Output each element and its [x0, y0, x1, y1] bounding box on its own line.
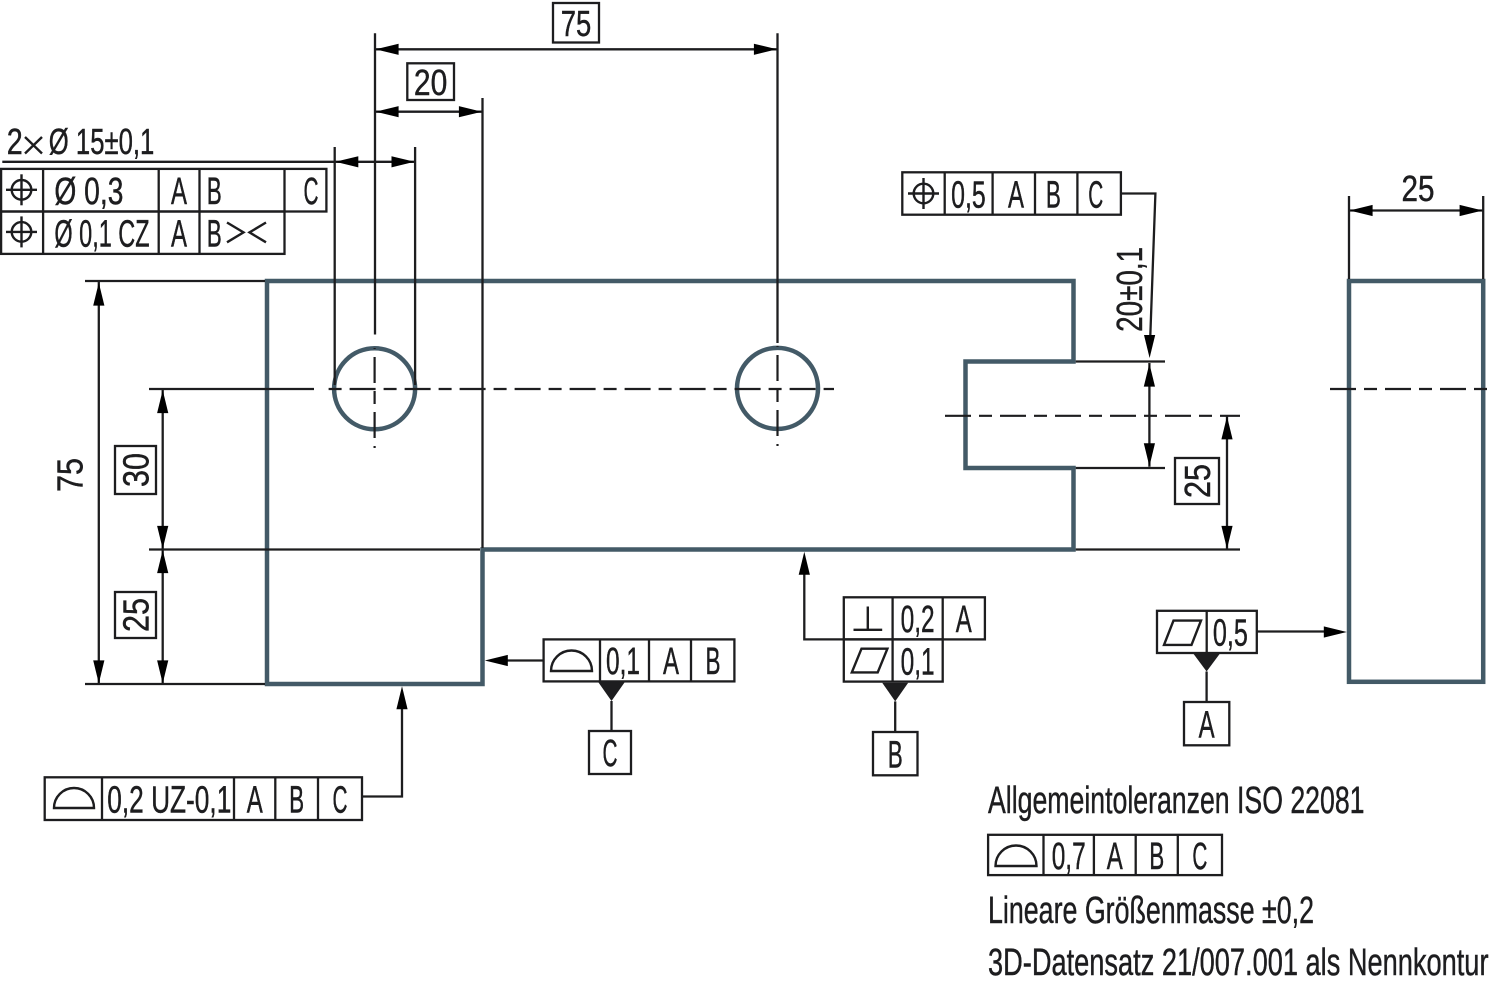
svg-text:C: C: [333, 780, 348, 822]
svg-text:3D-Datensatz 21/007.001 als Ne: 3D-Datensatz 21/007.001 als Nennkontur: [988, 942, 1489, 984]
extension line bottom-left corner: [85, 683, 265, 685]
side view rectangle: [1349, 281, 1483, 682]
svg-text:30: 30: [116, 453, 157, 487]
svg-text:B: B: [1149, 836, 1164, 878]
extension line bottom edge right: [1076, 548, 1240, 550]
datum B box: [873, 732, 918, 775]
FCF top-left row2 between symbol: [227, 223, 266, 243]
FCF top-right position symbol: [908, 178, 939, 209]
dimension 2x dia 15: leader line and arrows: [2, 161, 415, 163]
svg-text:A: A: [171, 171, 187, 213]
FCF top-right leader with arrow to notch extension: [1121, 194, 1156, 351]
svg-text:0,5: 0,5: [951, 174, 986, 216]
svg-text:A: A: [956, 599, 972, 641]
extension line notch bottom: [1076, 467, 1165, 469]
svg-text:25: 25: [116, 598, 157, 632]
FCF top-right frame: [902, 172, 1121, 214]
svg-text:B: B: [1046, 174, 1061, 216]
svg-text:0,7: 0,7: [1052, 836, 1086, 878]
hole 2: [737, 348, 818, 429]
datum C box: [589, 731, 631, 774]
dimension 20 top: frame box: [407, 63, 454, 100]
notch centerline: [945, 415, 1240, 417]
dimension 20 top: line and arrows: [375, 111, 483, 113]
FCF profile 0,1 leader arrow to step edge: [506, 659, 544, 661]
extension line step bottom left: [149, 548, 480, 550]
svg-text:0,5: 0,5: [1213, 613, 1248, 655]
extension line side view left: [1348, 196, 1350, 279]
dimension 20+-0,1 notch: line and arrows: [1148, 363, 1150, 467]
svg-text:Ø 0,3: Ø 0,3: [54, 171, 123, 213]
extension line hole1 center top: [374, 33, 376, 334]
perpendicularity symbol: [854, 607, 883, 630]
dimension 25 right: frame box: [1175, 458, 1219, 504]
svg-text:25: 25: [1177, 464, 1218, 498]
main horizontal centerline through holes: solid extension part: [149, 388, 314, 390]
svg-text:A: A: [247, 780, 263, 822]
FCF bottom-left profile 0,2 UZ-0,1 A B C frame: [45, 777, 362, 820]
svg-text:0,2 UZ-0,1: 0,2 UZ-0,1: [107, 780, 231, 822]
svg-text:B: B: [289, 780, 304, 822]
svg-text:A: A: [1008, 174, 1024, 216]
svg-text:25: 25: [1402, 168, 1435, 209]
dimension 25 left: frame box: [115, 592, 156, 638]
svg-text:A: A: [171, 213, 187, 255]
svg-text:20±0,1: 20±0,1: [1109, 247, 1150, 332]
FCF flatness 0,1 frame: [844, 639, 943, 681]
dimension 30 left: line and arrows: [162, 390, 164, 685]
dimension 25 side view: line and arrows: [1349, 209, 1483, 211]
side view centerline: [1330, 388, 1492, 390]
svg-text:20: 20: [414, 62, 447, 103]
extension line hole2 center top: [776, 33, 778, 343]
FCF top-left row1 position symbol: [6, 174, 37, 205]
part outline front view: [267, 281, 1074, 684]
svg-text:A: A: [1199, 704, 1215, 746]
surface profile symbol bottom-left: [54, 788, 94, 808]
hole 1: [334, 348, 415, 429]
hole 1 vertical centerline: [374, 348, 376, 448]
dimension 75 top: frame box: [553, 3, 599, 43]
flatness symbol 0,5: [1164, 621, 1201, 645]
svg-text:Lineare Größenmasse ±0,2: Lineare Größenmasse ±0,2: [988, 890, 1314, 932]
svg-text:0,2: 0,2: [901, 599, 935, 641]
svg-text:Ø 15±0,1: Ø 15±0,1: [49, 121, 155, 162]
svg-text:C: C: [304, 171, 319, 213]
svg-text:Allgemeintoleranzen ISO 22081: Allgemeintoleranzen ISO 22081: [988, 780, 1365, 822]
hole 2 vertical centerline: [776, 346, 778, 446]
FCF top-left frame (two rows): [1, 169, 326, 254]
dimension 30 left: frame box: [115, 446, 156, 494]
svg-text:0,1: 0,1: [901, 641, 935, 683]
svg-text:75: 75: [561, 3, 592, 44]
extension line notch top: [1076, 360, 1165, 362]
svg-text:C: C: [1192, 836, 1207, 878]
FCF flatness 0,5 leader arrow to side view: [1257, 630, 1325, 632]
general tolerance FCF frame: [988, 835, 1222, 875]
surface profile symbol general: [996, 845, 1037, 866]
dimension 75 left: line and arrows: [98, 282, 100, 684]
datum C feature triangle and stem: [599, 683, 625, 702]
svg-text:Ø 0,1 CZ: Ø 0,1 CZ: [54, 213, 149, 255]
extension line top-left corner: [85, 280, 265, 282]
FCF profile 0,1: surface profile symbol: [551, 650, 592, 671]
datum A box: [1184, 702, 1229, 745]
flatness symbol: [852, 649, 888, 673]
extension line step edge: [481, 98, 483, 548]
svg-text:75: 75: [50, 458, 91, 492]
FCF perpendicularity 0,2 A frame: [844, 597, 985, 639]
svg-text:A: A: [663, 641, 679, 683]
datum A feature triangle and stem: [1194, 654, 1220, 672]
FCF bottom-left leader to bottom edge: [362, 708, 402, 797]
FCF stack leader to bottom edge: [804, 574, 844, 639]
svg-text:2: 2: [7, 121, 23, 162]
dimension 25 left: arrows: [157, 550, 168, 573]
svg-text:B: B: [207, 171, 222, 213]
svg-text:C: C: [1088, 174, 1103, 216]
extension line hole1 left edge: [334, 147, 336, 385]
dimension 25 right notch: line and arrows: [1226, 416, 1228, 550]
extension line hole1 right edge: [414, 147, 416, 385]
extension line side view right: [1482, 196, 1484, 279]
svg-text:0,1: 0,1: [606, 641, 640, 683]
svg-text:B: B: [706, 641, 721, 683]
datum B feature triangle and stem: [882, 683, 908, 702]
svg-text:B: B: [207, 213, 222, 255]
FCF top-left row2 position symbol: [6, 216, 37, 247]
dimension 75 top: line and arrows: [375, 48, 778, 50]
main horizontal centerline through holes: dash-dot part: [322, 388, 834, 390]
FCF flatness 0,5 frame: [1157, 611, 1257, 653]
svg-text:C: C: [603, 733, 618, 775]
svg-text:A: A: [1107, 836, 1123, 878]
svg-text:B: B: [888, 734, 903, 776]
FCF profile 0,1 A B frame: [544, 639, 735, 681]
